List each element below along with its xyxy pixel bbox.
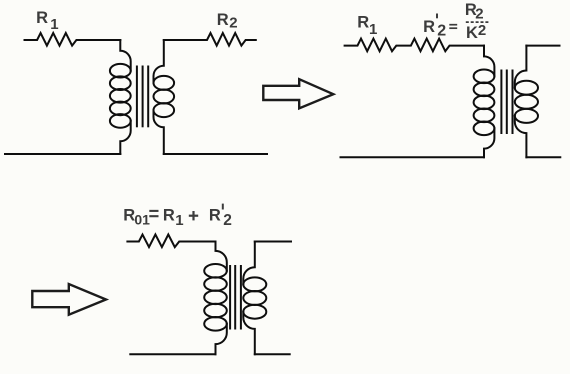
svg-text:R: R — [357, 14, 369, 32]
svg-text:2: 2 — [437, 22, 446, 39]
svg-text:1: 1 — [369, 21, 377, 38]
svg-text:2: 2 — [229, 15, 237, 32]
svg-text:R: R — [163, 207, 175, 225]
svg-text:R: R — [36, 9, 48, 27]
svg-text:K: K — [466, 24, 478, 42]
svg-text:2: 2 — [223, 212, 232, 229]
svg-text:R: R — [209, 207, 221, 225]
svg-text:2: 2 — [478, 22, 486, 39]
svg-text:2: 2 — [475, 6, 483, 23]
svg-text:01: 01 — [134, 212, 150, 228]
svg-text:R: R — [423, 18, 435, 36]
svg-text:R: R — [123, 207, 135, 225]
svg-text:1: 1 — [50, 16, 58, 33]
svg-text:R: R — [217, 11, 229, 29]
svg-text:1: 1 — [175, 212, 183, 229]
